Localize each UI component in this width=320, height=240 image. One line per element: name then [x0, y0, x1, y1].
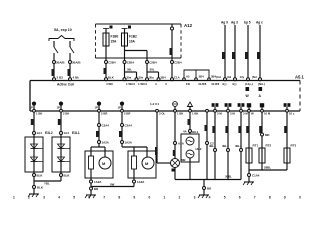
svg-text:6: 6 [88, 196, 90, 200]
svg-text:Ag c: Ag c [256, 21, 263, 25]
svg-text:2 BR: 2 BR [124, 112, 130, 116]
svg-text:Ag 3: Ag 3 [231, 21, 238, 25]
svg-text:4(-): 4(-) [222, 82, 227, 86]
svg-text:10 M: 10 M [264, 112, 271, 116]
svg-text:30L: 30L [150, 68, 155, 72]
svg-text:A5.1: A5.1 [295, 75, 305, 80]
svg-text:YBL: YBL [44, 182, 50, 186]
svg-text:MD: MD [265, 133, 270, 137]
svg-text:5A, exp 10: 5A, exp 10 [54, 28, 72, 32]
svg-text:9: 9 [284, 196, 286, 200]
svg-text:30BL: 30BL [225, 175, 232, 179]
svg-text:30a: 30a [127, 75, 132, 79]
svg-text:3: 3 [43, 196, 45, 200]
svg-text:3 B3: 3 B3 [57, 76, 64, 80]
svg-text:H9.2: H9.2 [196, 147, 202, 151]
svg-text:Active Coil: Active Coil [57, 83, 74, 87]
svg-text:0: 0 [148, 196, 150, 200]
svg-text:1P: 1P [95, 106, 99, 110]
svg-text:5W: 5W [110, 183, 115, 187]
svg-text:(14y-): (14y-) [245, 82, 253, 86]
svg-text:1P: 1P [30, 106, 34, 110]
svg-text:C2B4: C2B4 [174, 61, 182, 65]
svg-text:C2B4: C2B4 [108, 61, 116, 65]
svg-text:30A/B: 30A/B [56, 61, 65, 65]
svg-text:E3L2: E3L2 [45, 131, 53, 135]
svg-text:7: 7 [103, 196, 105, 200]
svg-text:30e: 30e [139, 75, 144, 79]
svg-text:1A2A: 1A2A [125, 141, 133, 145]
svg-text:4(-): 4(-) [232, 82, 237, 86]
svg-text:C2A4: C2A4 [125, 124, 133, 128]
svg-text:10A: 10A [129, 40, 136, 44]
svg-text:14y: 14y [240, 75, 245, 79]
svg-text:4EL4: 4EL4 [235, 144, 242, 148]
svg-text:C2B4: C2B4 [127, 61, 135, 65]
svg-text:1-2 C1: 1-2 C1 [150, 102, 159, 106]
svg-text:MB: MB [181, 158, 186, 162]
svg-text:W: W [251, 112, 254, 116]
svg-text:(Nd: (Nd [252, 75, 257, 79]
svg-text:A12: A12 [184, 23, 193, 28]
svg-text:41JF8: 41JF8 [198, 82, 207, 86]
svg-text:4EL4: 4EL4 [222, 144, 229, 148]
svg-text:4 Bk: 4 Bk [73, 76, 80, 80]
svg-text:1: 1 [13, 196, 15, 200]
svg-text:30A/B: 30A/B [72, 61, 81, 65]
svg-text:5: 5 [224, 196, 226, 200]
svg-text:4: 4 [58, 196, 60, 200]
svg-text:BLK: BLK [64, 174, 71, 178]
svg-text:2: 2 [28, 196, 30, 200]
svg-text:C2A4: C2A4 [102, 124, 110, 128]
svg-text:1P: 1P [118, 106, 122, 110]
svg-text:BLK: BLK [37, 174, 44, 178]
svg-text:1 WC3: 1 WC3 [126, 82, 135, 86]
svg-text:RT1: RT1 [253, 144, 259, 148]
svg-text:1A2A: 1A2A [94, 180, 102, 184]
svg-text:9: 9 [133, 196, 135, 200]
svg-text:1A2A: 1A2A [102, 141, 110, 145]
svg-text:BLK: BLK [37, 186, 44, 190]
svg-text:1P: 1P [57, 106, 61, 110]
svg-text:1 BK: 1 BK [36, 112, 42, 116]
svg-text:7: 7 [254, 196, 256, 200]
svg-text:30a: 30a [149, 75, 154, 79]
svg-text:4EL4: 4EL4 [209, 144, 216, 148]
svg-text:8: 8 [118, 196, 120, 200]
svg-text:3 M: 3 M [243, 112, 248, 116]
svg-text:8: 8 [269, 196, 271, 200]
svg-text:3B4: 3B4 [199, 75, 205, 79]
svg-text:F1B2: F1B2 [129, 35, 137, 39]
svg-text:1 BK: 1 BK [192, 112, 198, 116]
svg-text:F1B0: F1B0 [111, 35, 119, 39]
svg-text:2 BK: 2 BK [63, 112, 69, 116]
svg-text:C1A4: C1A4 [252, 174, 260, 178]
svg-text:10 c: 10 c [289, 112, 295, 116]
svg-text:3 OL: 3 OL [159, 112, 166, 116]
svg-text:0: 0 [299, 196, 301, 200]
svg-text:4: 4 [209, 196, 211, 200]
svg-text:C2B4: C2B4 [149, 61, 157, 65]
svg-text:1A4: 1A4 [64, 131, 70, 135]
svg-text:3 M: 3 M [230, 112, 235, 116]
svg-text:3B4: 3B4 [161, 75, 167, 79]
svg-text:RT3: RT3 [291, 144, 297, 148]
svg-text:FB: FB [186, 82, 190, 86]
svg-text:1 BK: 1 BK [177, 112, 183, 116]
svg-text:C1A: C1A [174, 75, 180, 79]
svg-text:E3L1: E3L1 [72, 131, 80, 135]
svg-text:28BL: 28BL [264, 166, 271, 170]
svg-text:1A4: 1A4 [37, 131, 43, 135]
svg-text:(4d: (4d [227, 75, 231, 79]
svg-text:30L: 30L [127, 68, 132, 72]
svg-text:bp 5: bp 5 [244, 21, 251, 25]
svg-text:15A: 15A [111, 40, 118, 44]
svg-text:A2: A2 [186, 75, 190, 79]
svg-text:(NA-): (NA-) [258, 82, 265, 86]
svg-text:2: 2 [179, 196, 181, 200]
svg-text:3: 3 [194, 196, 196, 200]
svg-text:BLK: BLK [108, 75, 114, 79]
svg-text:4 WC: 4 WC [106, 82, 114, 86]
svg-text:3 M: 3 M [217, 112, 222, 116]
svg-text:41JF8: 41JF8 [211, 82, 220, 86]
svg-text:RT2: RT2 [266, 144, 272, 148]
svg-text:(Ad: (Ad [216, 75, 221, 79]
svg-text:5: 5 [73, 196, 75, 200]
svg-text:6: 6 [239, 196, 241, 200]
svg-text:1A2A: 1A2A [137, 180, 145, 184]
svg-text:1: 1 [164, 196, 166, 200]
svg-text:Ag 9: Ag 9 [221, 21, 228, 25]
svg-text:2 BR: 2 BR [101, 112, 107, 116]
svg-text:H9.1: H9.1 [192, 130, 199, 134]
svg-text:1 WC3: 1 WC3 [138, 82, 147, 86]
